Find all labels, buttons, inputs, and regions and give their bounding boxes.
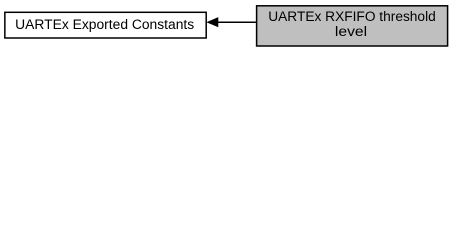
svg-text:level: level xyxy=(335,23,367,39)
svg-text:UARTEx Exported Constants: UARTEx Exported Constants xyxy=(15,17,194,32)
svg-text:UARTEx RXFIFO threshold: UARTEx RXFIFO threshold xyxy=(268,9,436,24)
node: UARTEx RXFIFO threshold level (current, gray) xyxy=(257,6,448,46)
edge arrow: RXFIFO threshold level -> Exported Constants xyxy=(208,18,256,27)
node: UARTEx Exported Constants xyxy=(5,12,206,38)
